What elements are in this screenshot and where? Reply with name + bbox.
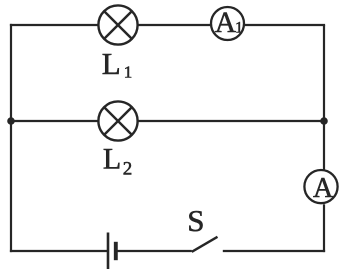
wire bottom-left segment — [10, 250, 107, 252]
battery long plate — [107, 233, 110, 270]
lamp L2 — [98, 101, 137, 140]
wire top-middle segment (L1 to A1) — [138, 24, 210, 26]
svg-text:L: L — [103, 142, 121, 175]
wire bottom-right segment — [223, 250, 325, 252]
wire right vertical lower — [323, 204, 325, 252]
wire top-left segment — [10, 24, 98, 26]
switch S blade — [192, 237, 218, 252]
lamp L1 — [98, 5, 137, 44]
svg-text:L: L — [102, 46, 121, 81]
node right junction — [320, 117, 328, 125]
svg-text:1: 1 — [124, 62, 133, 81]
svg-text:A: A — [313, 173, 334, 204]
ammeter A — [304, 170, 337, 203]
ammeter A1 — [211, 7, 244, 40]
wire bottom-middle segment (battery to switch) — [117, 250, 192, 252]
wire middle-right segment (L2 to right junction) — [138, 120, 324, 122]
battery short plate — [114, 242, 118, 260]
wire middle-left segment — [11, 120, 98, 122]
svg-text:2: 2 — [123, 158, 133, 179]
wire top-right segment — [245, 24, 325, 26]
node left junction — [7, 117, 15, 125]
svg-text:A: A — [215, 7, 237, 39]
wire right vertical upper — [323, 25, 325, 170]
svg-text:S: S — [187, 203, 204, 238]
wire left vertical — [10, 24, 12, 252]
svg-text:1: 1 — [235, 20, 243, 37]
